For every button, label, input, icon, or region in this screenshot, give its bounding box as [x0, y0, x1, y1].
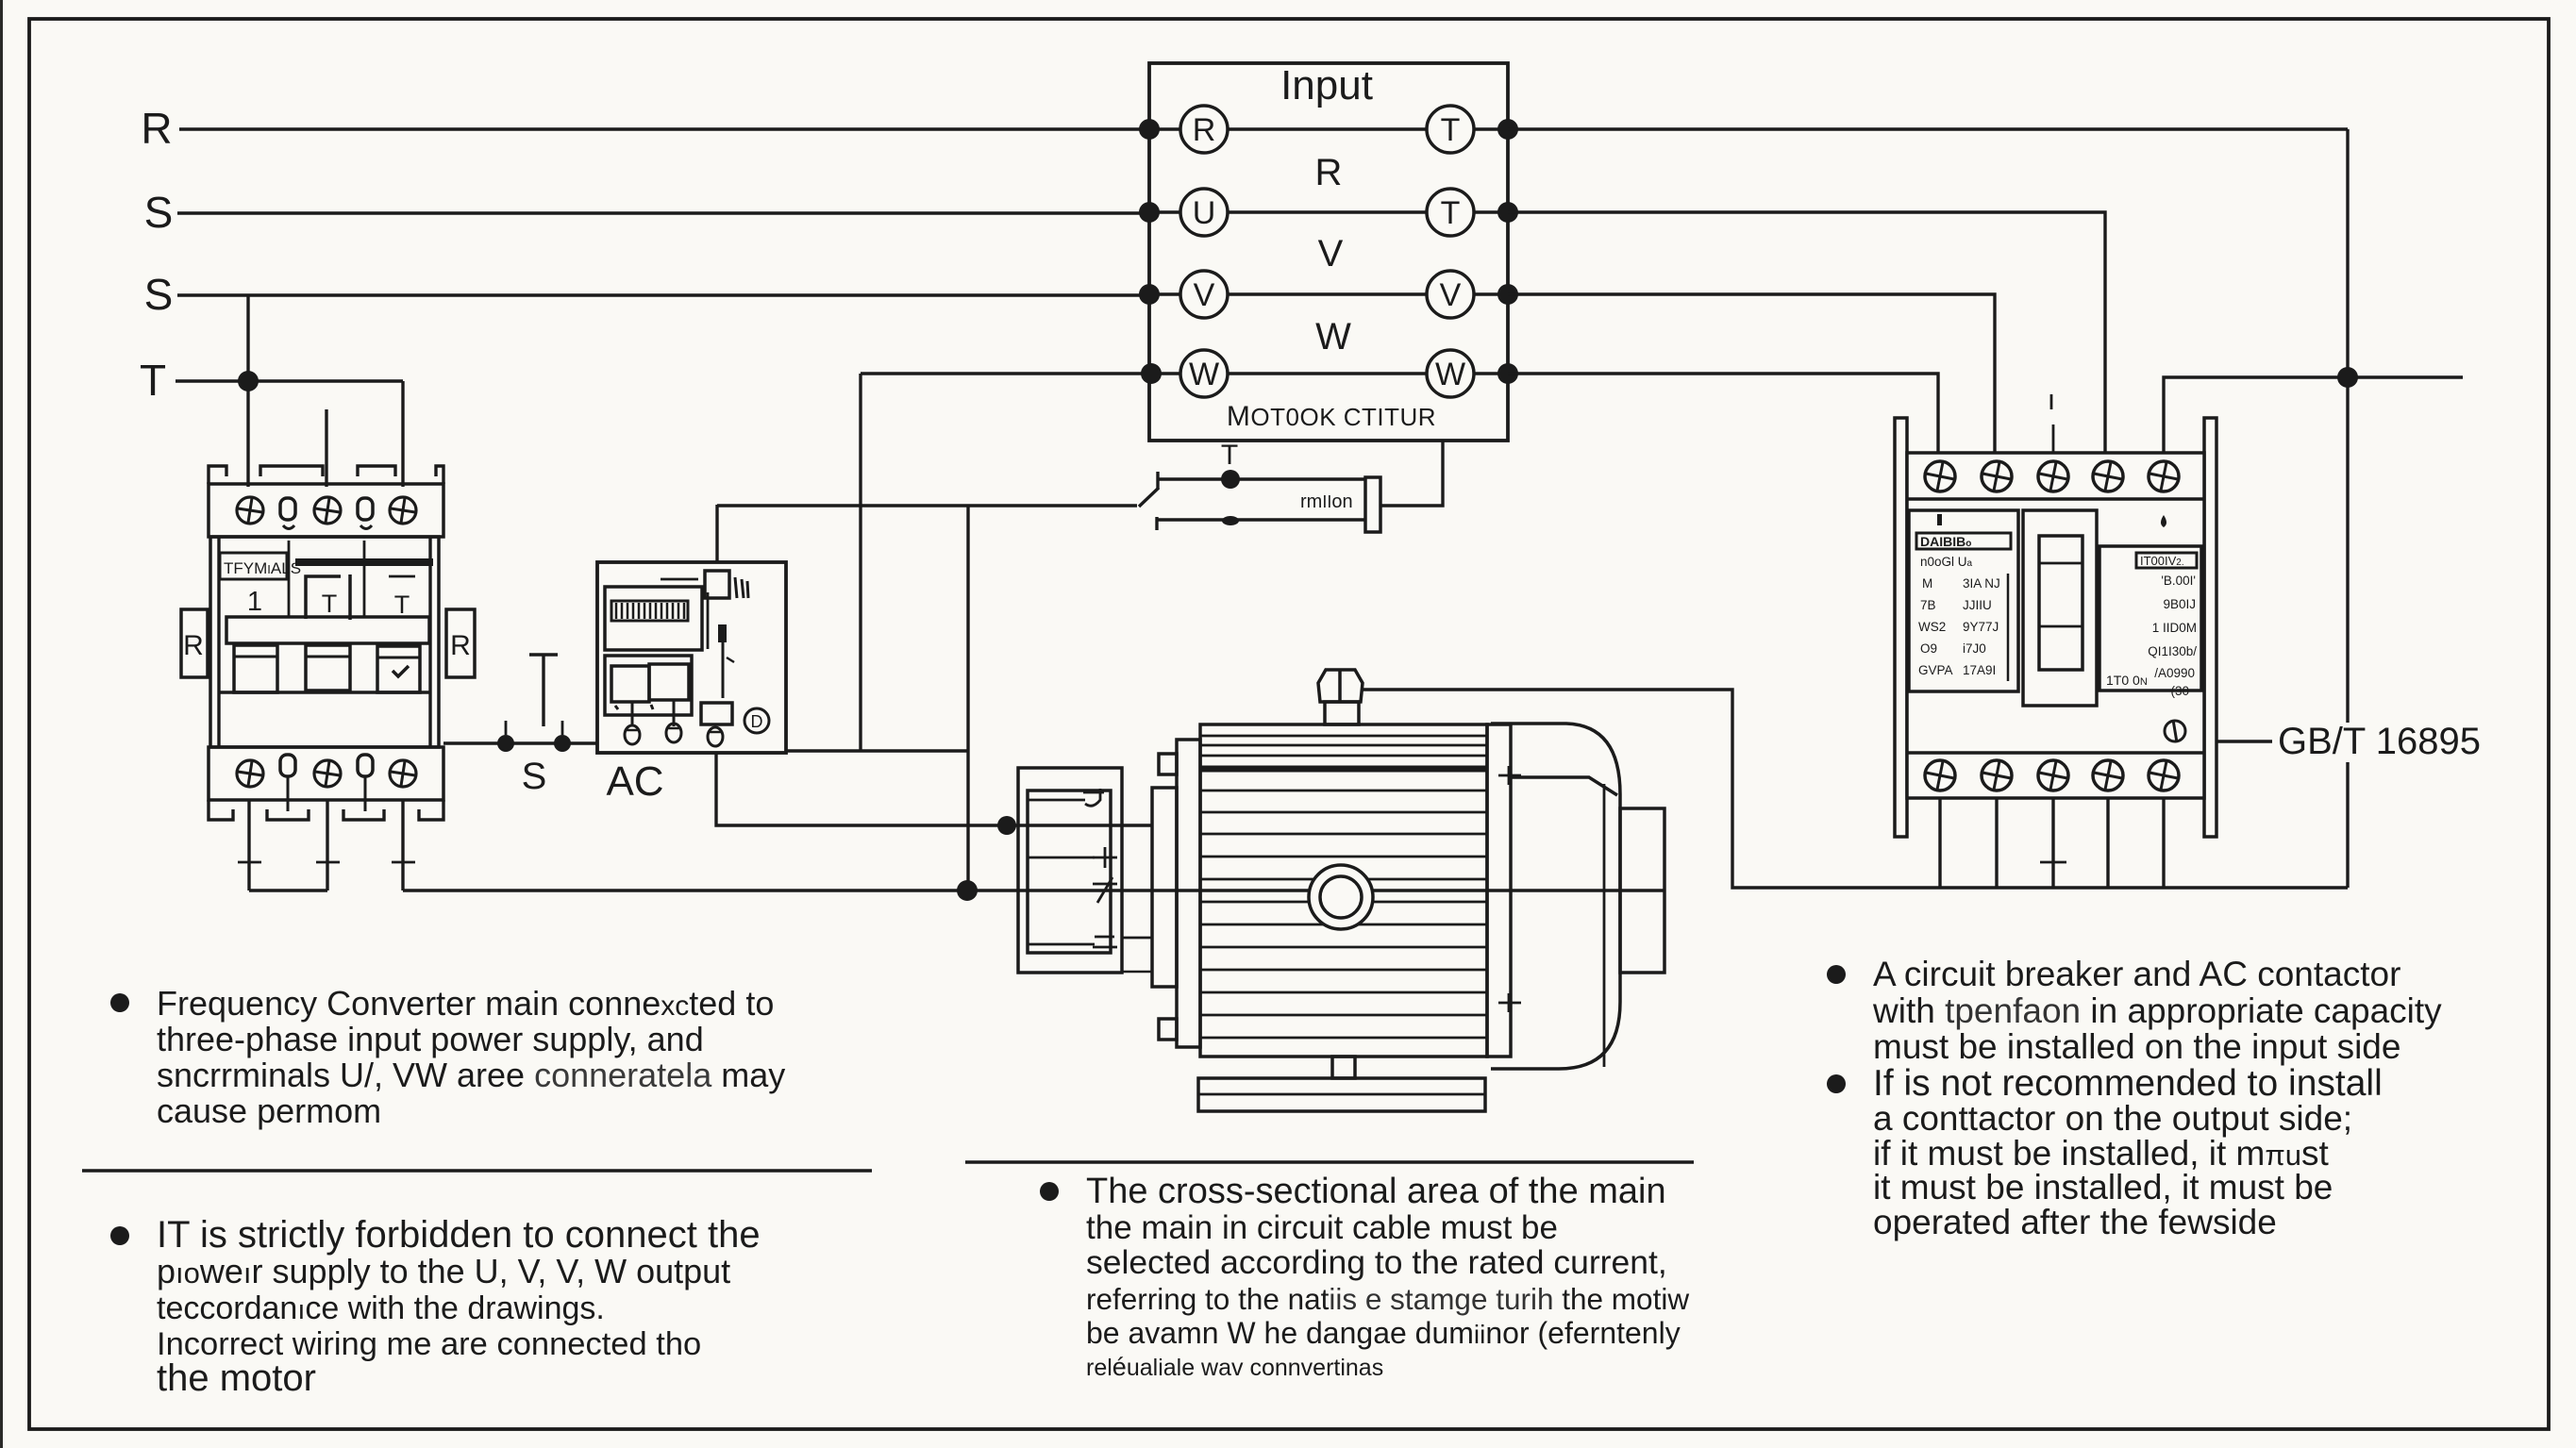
switch S tick left — [505, 721, 508, 735]
svg-text:7B: 7B — [1920, 598, 1936, 612]
wire row4 inside — [861, 372, 1508, 374]
wire AC bottom link — [786, 749, 968, 752]
motor body — [1200, 724, 1487, 1057]
node dot row3 left — [1139, 284, 1160, 305]
node dot row1 right — [1497, 119, 1518, 140]
svg-text:T: T — [1441, 195, 1461, 231]
svg-text:GB/T 16895: GB/T 16895 — [2278, 721, 2481, 762]
svg-text:if it must be installed, it mπ: if it must be installed, it mπust — [1873, 1134, 2330, 1173]
terminal V — [1180, 271, 1228, 318]
svg-text:three-phase input power supply: three-phase input power supply, and — [157, 1020, 704, 1058]
screw B5 — [2149, 760, 2179, 791]
breaker contact1 — [234, 645, 277, 692]
svg-text:(30: (30 — [2170, 684, 2189, 698]
terminal line W1 mark — [1093, 877, 1117, 903]
breaker QF1 top tab edge — [209, 466, 443, 484]
motor shaft — [1620, 808, 1664, 973]
svg-text:the main in circuit cable must: the main in circuit cable must be — [1086, 1209, 1558, 1246]
screw QF1 T3 — [390, 497, 416, 524]
tick out1 — [238, 861, 261, 864]
breaker left info panel — [1909, 510, 2018, 691]
wire breaker bottom stub5 — [2162, 798, 2165, 888]
svg-text:1 IID0M: 1 IID0M — [2152, 621, 2197, 635]
wire breaker bottom stub3 — [2051, 798, 2054, 888]
wire breaker bottom stub1 — [1938, 798, 1941, 888]
svg-text:W: W — [1189, 357, 1219, 392]
wire row1 to far right — [1508, 127, 2348, 130]
note block 1 — [110, 984, 785, 1130]
breaker bottom band divider — [1907, 751, 2204, 754]
svg-text:V: V — [1318, 233, 1344, 275]
svg-text:R: R — [141, 104, 172, 153]
wire breaker to AC contactor — [443, 741, 597, 744]
svg-text:T: T — [140, 356, 166, 405]
breaker center stub marks — [2051, 394, 2053, 453]
divider middle — [965, 1160, 1694, 1164]
svg-text:S: S — [522, 756, 547, 797]
svg-text:T: T — [1221, 440, 1238, 471]
svg-text:S: S — [144, 270, 174, 319]
motor lifting bolt — [1318, 670, 1363, 724]
divider left — [82, 1169, 872, 1173]
screw QF1 T1 — [237, 497, 263, 524]
node dot T contact — [1221, 470, 1240, 489]
screw QF1 T2 — [314, 497, 341, 524]
AC lower cell2 — [649, 664, 689, 700]
svg-text:S: S — [144, 188, 174, 237]
clamp clip top1 — [280, 498, 295, 529]
motor lug bottom — [1159, 1019, 1177, 1040]
svg-text:must be installed on the input: must be installed on the input side — [1873, 1027, 2400, 1066]
svg-text:cause permom: cause permom — [157, 1091, 381, 1130]
svg-text:Frequency Converter main conne: Frequency Converter main connexcted to — [157, 984, 774, 1023]
wire vertical T drop lower — [2346, 762, 2349, 888]
terminal V right — [1427, 271, 1474, 318]
breaker contact3 — [377, 646, 420, 692]
wire bus T — [176, 379, 403, 382]
terminal U — [1180, 189, 1228, 236]
wire row4 to breaker — [1508, 374, 1938, 455]
terminal W right — [1427, 350, 1474, 397]
screw T3 — [2038, 461, 2068, 491]
svg-text:JJIIU: JJIIU — [1963, 598, 1992, 612]
svg-text:If is not recommended to insta: If is not recommended to install — [1873, 1063, 2383, 1104]
svg-text:V: V — [1440, 277, 1462, 313]
thermal contact bottom line — [1157, 517, 1365, 530]
svg-text:W: W — [1315, 316, 1351, 358]
wire motor top to breaker bus — [1362, 690, 2348, 888]
wire row1 inside — [1149, 127, 1508, 130]
terminal R — [1180, 106, 1228, 153]
node dot row2 left — [1139, 202, 1160, 223]
switch S terminal dot left — [497, 735, 514, 752]
svg-text:R: R — [450, 630, 471, 661]
svg-text:teccordanıce with the drawings: teccordanıce with the drawings. — [157, 1290, 605, 1326]
wire drop breaker right from T — [401, 381, 404, 487]
wire QF1 out2 — [326, 800, 328, 890]
wire box to motor lower — [1122, 971, 1152, 974]
breaker left panel specs — [1918, 555, 2000, 677]
breaker phi symbol — [2165, 720, 2185, 742]
svg-text:AC: AC — [606, 758, 663, 805]
motor terminal box — [1018, 768, 1122, 973]
svg-text:/A0990: /A0990 — [2154, 666, 2195, 680]
breaker QF1 main body — [210, 537, 439, 747]
screw T4 — [2093, 461, 2123, 491]
motor eye inner — [1320, 876, 1362, 918]
svg-text:MOT0OK CTITUR: MOT0OK CTITUR — [1227, 401, 1436, 432]
svg-text:sncrrminals U/, VW aree conner: sncrrminals U/, VW aree conneratela may — [157, 1056, 785, 1094]
AC coil hatch — [611, 601, 688, 621]
svg-text:it must be installed, it must: it must be installed, it must be — [1873, 1168, 2333, 1207]
svg-text:DAIBIBo: DAIBIBo — [1920, 534, 1971, 549]
motor terminal box inner — [1028, 791, 1111, 953]
motor flange left — [1177, 740, 1200, 1047]
svg-text:9B0IJ: 9B0IJ — [2163, 597, 2196, 611]
wire bus R — [179, 127, 1149, 130]
wire AC output to motor — [716, 753, 1152, 825]
circuit breaker QF2 left rail — [1895, 418, 1907, 837]
motor flange right — [1487, 724, 1511, 1057]
breaker QF1 inner left wall — [217, 537, 220, 747]
screw QF1 B3 — [390, 760, 416, 787]
breaker toggle divider1 — [2039, 562, 2083, 565]
screw QF1 B2 — [314, 760, 341, 787]
node dot T-S2 junction — [238, 371, 259, 391]
svg-text:rmIIon: rmIIon — [1300, 491, 1353, 512]
svg-text:9Y77J: 9Y77J — [1963, 620, 1999, 634]
breaker toggle window — [2039, 536, 2083, 670]
thermal relay coil — [1365, 477, 1380, 532]
svg-text:IT is strictly forbidden to co: IT is strictly forbidden to connect the — [157, 1214, 761, 1256]
wire QF1 out3 — [401, 800, 404, 890]
breaker left panel inner divider — [2007, 574, 2010, 681]
end bell inner vertical — [1603, 784, 1606, 1067]
motor fin thick — [1200, 766, 1487, 773]
svg-text:the motor: the motor — [157, 1357, 316, 1399]
left scan edge — [0, 0, 3, 1448]
thermal contact top line — [1158, 472, 1365, 489]
circuit breaker QF2 body — [1907, 453, 2204, 798]
wire T switch feed — [717, 504, 1137, 507]
AC terminal oval2 — [666, 724, 681, 742]
breaker center column — [2023, 510, 2097, 706]
screw T5 — [2149, 461, 2179, 491]
motor lug top — [1159, 754, 1177, 774]
AC coil window — [605, 587, 702, 650]
clamp clip bottom1 — [280, 755, 295, 811]
breaker top band divider — [1907, 497, 2204, 500]
breaker QF1 bottom tab edge — [209, 800, 443, 820]
svg-text:'B.00I': 'B.00I' — [2161, 574, 2196, 588]
wire row2 to breaker — [1508, 212, 2105, 455]
node dot row4 left — [1141, 363, 1162, 384]
wire bus S2 — [177, 293, 1149, 296]
svg-text:R: R — [183, 630, 204, 661]
svg-text:be avamn W he dangae dumiinor: be avamn W he dangae dumiinor (eferntenl… — [1086, 1316, 1681, 1350]
svg-text:Input: Input — [1280, 62, 1373, 108]
breaker lower shelf — [219, 691, 430, 693]
label T pole3 — [389, 576, 415, 619]
AC circled mark — [744, 708, 769, 733]
node dot row3 right — [1497, 284, 1518, 305]
tick out2 — [316, 861, 340, 864]
svg-text:R: R — [1193, 112, 1216, 148]
label GB/T 16895 — [2216, 721, 2481, 762]
svg-text:R: R — [1315, 152, 1343, 193]
node junction S2 drop — [246, 295, 249, 487]
switch S actuator — [529, 655, 558, 726]
motor end bell — [1491, 724, 1620, 1069]
breaker QF1 column divider2 — [363, 541, 366, 618]
wire row3 to breaker — [1508, 294, 1995, 455]
motor cooling fins — [1200, 736, 1487, 1038]
note block 4 — [1827, 955, 2442, 1241]
AC cell stems — [615, 700, 674, 726]
AC contact mark — [718, 624, 734, 698]
breaker right info panel — [2099, 546, 2201, 691]
svg-text:T: T — [322, 590, 338, 618]
svg-text:with tpenfaon in appropriate c: with tpenfaon in appropriate capacity — [1872, 991, 2442, 1030]
wire main output to motor — [403, 889, 1664, 891]
breaker dark bar — [295, 558, 433, 566]
node dot T branch — [2337, 367, 2358, 388]
tick out3 — [392, 861, 415, 864]
node dot switch drop junction — [957, 880, 978, 901]
svg-text:referring to the natiis e stam: referring to the natiis e stamge turih t… — [1086, 1282, 1689, 1316]
wire switch drop to motor line — [966, 506, 969, 890]
svg-text:M: M — [1922, 576, 1932, 591]
svg-text:operated after the fewside: operated after the fewside — [1873, 1203, 2277, 1241]
wire QF1 out1 — [247, 800, 250, 890]
wire relay to input box — [1380, 441, 1443, 506]
svg-text:O9: O9 — [1920, 641, 1937, 656]
wire row3 inside — [1149, 292, 1508, 295]
wire drop breaker middle — [325, 409, 327, 487]
svg-text:D: D — [751, 712, 763, 731]
AC terminal oval1 — [625, 725, 640, 744]
AC contactor KM box — [597, 562, 786, 753]
svg-text:QI1I30b/: QI1I30b/ — [2148, 644, 2197, 658]
terminal line U1 — [1028, 789, 1104, 806]
breaker QF1 bottom terminal band — [209, 747, 443, 800]
motor inner strip — [1152, 788, 1177, 987]
svg-text:GVPA: GVPA — [1918, 663, 1953, 677]
wire QF1 out bridge — [249, 889, 327, 891]
svg-text:1: 1 — [247, 587, 262, 617]
node dot row1 left — [1139, 119, 1160, 140]
note block 2 — [110, 1214, 761, 1399]
wire breaker bottom stub4 — [2106, 798, 2109, 888]
wire AC top feed — [715, 505, 718, 562]
svg-text:A circuit breaker and AC conta: A circuit breaker and AC contactor — [1873, 955, 2400, 993]
breaker toggle divider2 — [2039, 625, 2083, 628]
breaker left panel header — [1916, 533, 2011, 549]
wire row2 inside — [1149, 210, 1508, 213]
screw B4 — [2093, 760, 2123, 791]
breaker mark dot — [1937, 514, 1942, 525]
screw B2 — [1982, 760, 2012, 791]
svg-text:The cross-sectional area of th: The cross-sectional area of the main — [1086, 1172, 1666, 1211]
AC top ledge — [661, 578, 698, 581]
switch S terminal dot right — [554, 735, 571, 752]
screw B3 — [2038, 760, 2068, 791]
breaker teardrop mark — [2161, 515, 2166, 527]
label T pole2 — [306, 574, 350, 620]
wire branch to breaker terminal5 — [2164, 377, 2463, 455]
AC terminal oval3 — [708, 727, 723, 746]
wire box to motor aux — [1122, 937, 1152, 940]
breaker crossbar — [226, 617, 429, 643]
AC lower cell1 — [611, 666, 649, 702]
flange bolt top — [1498, 766, 1521, 785]
terminal line V1 plus — [1028, 847, 1117, 868]
flange bolt bottom — [1498, 993, 1521, 1012]
note block 3 — [1040, 1172, 1689, 1381]
tab R right — [446, 609, 475, 677]
tab R left — [181, 609, 208, 677]
AC aux lower block — [701, 703, 732, 724]
svg-text:V: V — [1194, 277, 1215, 313]
motor base plate — [1198, 1078, 1485, 1111]
wire breaker bottom stub2 — [1995, 798, 1998, 888]
circuit breaker QF2 right rail — [2204, 418, 2216, 837]
AC lower window — [605, 656, 692, 715]
svg-text:17A9I: 17A9I — [1963, 663, 1996, 677]
wire bus S — [177, 211, 1149, 214]
svg-text:pıoweır supply to the U, V, V,: pıoweır supply to the U, V, V, W output — [157, 1252, 730, 1290]
clamp clip top2 — [358, 498, 373, 529]
screw B1 — [1925, 760, 1955, 791]
breaker right panel specs — [2148, 574, 2197, 698]
label TERMINALS box — [220, 553, 301, 579]
svg-text:i7J0: i7J0 — [1963, 641, 1986, 656]
terminal T right1 — [1427, 106, 1474, 153]
breaker QF1 column divider1 — [288, 541, 291, 618]
switch blade — [1139, 488, 1159, 507]
svg-text:WS2: WS2 — [1918, 620, 1946, 634]
motor base column — [1332, 1057, 1355, 1078]
motor eye outer — [1309, 865, 1373, 929]
breaker right panel header — [2136, 553, 2197, 568]
node dot row4 right — [1497, 363, 1518, 384]
node tick stub3 — [2040, 861, 2066, 864]
AC side rail — [707, 592, 710, 649]
svg-text:3IA NJ: 3IA NJ — [1963, 576, 2000, 591]
node small dot bottom contact — [1222, 516, 1239, 525]
terminal T right2 — [1427, 189, 1474, 236]
svg-text:TFYMIALS: TFYMIALS — [224, 559, 301, 577]
wire W-row drop — [859, 374, 861, 751]
breaker contact2 — [306, 645, 350, 691]
svg-text:reléualiale wav connvertinas: reléualiale wav connvertinas — [1086, 1353, 1383, 1381]
wire vertical T drop right — [2346, 129, 2349, 723]
svg-text:selected according to the rate: selected according to the rated current, — [1086, 1243, 1667, 1281]
terminal earth mark — [1028, 937, 1117, 947]
switch S tick right — [561, 721, 564, 735]
node dot AC wire junction — [997, 816, 1016, 835]
terminal W — [1180, 350, 1228, 397]
frequency converter input box — [1149, 63, 1508, 441]
svg-text:n0oGl Ua: n0oGl Ua — [1920, 555, 1973, 569]
clamp clip bottom2 — [358, 755, 373, 811]
breaker QF1 inner right wall — [428, 537, 431, 747]
svg-text:T: T — [394, 591, 410, 619]
node dot row2 right — [1497, 202, 1518, 223]
svg-text:U: U — [1193, 195, 1216, 231]
breaker QF1 top terminal band — [209, 484, 443, 537]
AC aux block — [705, 571, 748, 598]
svg-text:T: T — [1441, 112, 1461, 148]
screw T2 — [1982, 461, 2012, 491]
svg-text:a conttactor on the output sid: a conttactor on the output side; — [1873, 1099, 2352, 1138]
screw T1 — [1925, 461, 1955, 491]
end bell inner line — [1511, 777, 1617, 795]
screw QF1 B1 — [237, 760, 263, 787]
svg-text:W: W — [1435, 357, 1465, 392]
